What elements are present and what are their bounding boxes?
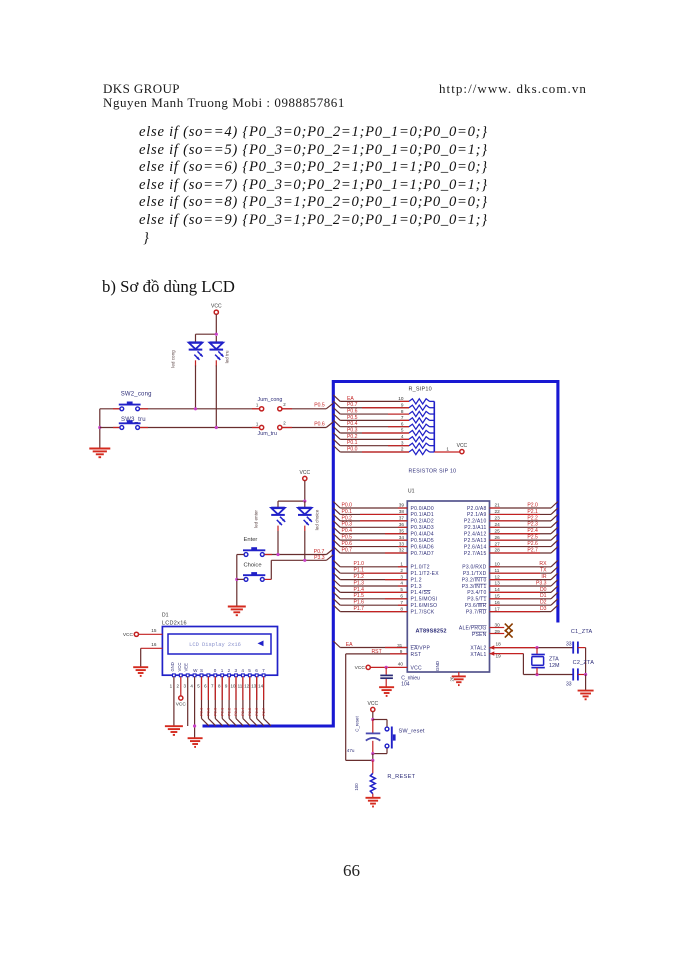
switch SW_reset [373,719,387,721]
svg-text:28: 28 [495,548,501,553]
svg-text:34: 34 [399,535,405,540]
svg-text:VCC: VCC [411,666,422,672]
svg-text:XTAL2: XTAL2 [470,646,486,652]
svg-text:P1.3: P1.3 [411,584,422,590]
svg-text:6: 6 [204,684,207,689]
svg-text:9: 9 [401,402,404,407]
svg-text:16: 16 [151,642,157,647]
svg-text:P1.0: P1.0 [354,561,365,567]
svg-text:D2: D2 [540,600,547,606]
wire net P2.7 from U1 pin 28 [490,552,552,554]
svg-text:P1.0/T2: P1.0/T2 [411,565,430,571]
svg-text:3: 3 [401,440,404,445]
svg-text:104: 104 [401,681,410,687]
svg-text:P0.0: P0.0 [342,502,353,508]
LED led_tru [215,336,217,342]
svg-text:2: 2 [401,447,404,452]
svg-text:C_reset: C_reset [355,716,360,732]
svg-text:12M: 12M [549,663,560,669]
svg-text:P0.5/AD5: P0.5/AD5 [411,538,434,544]
svg-text:SW2_cong: SW2_cong [121,391,152,397]
svg-text:1: 1 [221,668,224,673]
section heading [102,277,235,297]
node junction XTAL1/crystal [535,673,538,676]
svg-text:XTAL1: XTAL1 [470,652,486,658]
svg-text:P2.5: P2.5 [247,707,252,716]
svg-text:1: 1 [256,403,259,408]
node junction rail/SW3 [98,426,101,429]
svg-text:25: 25 [495,528,501,533]
svg-text:1: 1 [400,562,403,567]
capacitor C_reset 47u [372,720,374,733]
wire net P0.6 to R_SIP10 pin 8 [333,408,340,415]
svg-text:4: 4 [241,668,244,673]
svg-text:P3.5/T1: P3.5/T1 [467,597,486,603]
svg-text:22: 22 [495,509,501,514]
wire led_cong to SW2 row [195,366,197,409]
svg-text:P3.3: P3.3 [536,580,547,586]
svg-text:8: 8 [401,409,404,414]
wire to crystal ground [585,675,587,691]
code block [139,124,488,247]
svg-text:10: 10 [398,396,404,401]
node junction reset top [371,718,374,721]
svg-text:led choice: led choice [315,509,320,530]
wire XTAL1 U1 pin 19 [490,651,495,655]
svg-text:35: 35 [399,528,405,533]
wire VCC to middle LEDs [304,481,306,502]
svg-text:P1.5: P1.5 [354,593,365,599]
wire net P0.6 to U1 pin 33 [333,540,340,547]
svg-text:VCC: VCC [300,470,311,476]
svg-text:P0.6: P0.6 [342,541,353,547]
svg-text:6: 6 [401,421,404,426]
svg-text:P2.7: P2.7 [527,547,538,553]
svg-text:19: 19 [496,654,502,659]
svg-text:GND: GND [435,660,440,671]
svg-text:ALE/PROG: ALE/PROG [459,626,487,632]
svg-text:P2.2: P2.2 [226,707,231,716]
svg-text:RST: RST [411,652,422,658]
header line 2 [103,95,345,111]
svg-text:5: 5 [401,428,404,433]
svg-text:38: 38 [399,509,405,514]
wire U1 GND pin 20 to ground [458,672,460,676]
wire net P0.5 to R_SIP10 pin 7 [333,414,340,421]
svg-text:ZTA: ZTA [549,656,559,662]
svg-text:8: 8 [400,606,403,611]
svg-text:P0.4: P0.4 [342,528,353,534]
svg-text:U1: U1 [408,489,415,495]
svg-text:P0.4: P0.4 [347,421,358,427]
svg-text:P0.5: P0.5 [342,535,353,541]
svg-text:31: 31 [397,643,403,648]
node junction rail/Choice [235,578,238,581]
wire net IR from U1 pin 12 [490,579,552,581]
svg-text:P2.5: P2.5 [527,535,538,541]
svg-text:D1: D1 [162,613,169,619]
svg-text:P0.5: P0.5 [314,403,325,409]
svg-text:10: 10 [495,562,501,567]
svg-text:P2.7/A15: P2.7/A15 [464,551,487,557]
svg-text:14: 14 [495,587,501,592]
svg-text:P2.3: P2.3 [233,707,238,716]
wire LCD pin 16 to ground [141,647,163,649]
wire net P1.2 to U1 pin 3 [333,573,340,580]
svg-text:P0.6/AD6: P0.6/AD6 [411,544,434,550]
svg-text:P2.0: P2.0 [527,502,538,508]
svg-text:P2.1/A9: P2.1/A9 [467,512,487,518]
svg-text:2: 2 [283,421,286,426]
svg-text:C2_ZTA: C2_ZTA [573,660,595,666]
svg-text:9: 9 [400,649,403,654]
wire rail to SW2 [100,408,120,410]
svg-text:AT89S8252: AT89S8252 [416,629,447,635]
power VCC middle [303,476,307,480]
svg-text:R_SIP10: R_SIP10 [409,387,432,393]
svg-text:P0.3: P0.3 [347,427,358,433]
power VCC top [214,310,218,314]
svg-text:33: 33 [399,541,405,546]
ground Enter/Choice rail [228,606,246,608]
wire net D3 from U1 pin 17 [490,611,552,613]
svg-text:32: 32 [399,548,405,553]
wire net P0.1 to R_SIP10 pin 3 [333,439,340,446]
svg-text:P0.7/AD7: P0.7/AD7 [411,551,434,557]
svg-text:RESISTOR SIP 10: RESISTOR SIP 10 [409,469,457,475]
svg-text:P3.3: P3.3 [314,555,325,561]
LED led_cong [195,334,197,342]
svg-text:13: 13 [251,684,257,689]
svg-text:P2.7: P2.7 [261,707,266,716]
svg-text:Jum_tru: Jum_tru [258,431,277,437]
wire U1 pin 30 ALE/PROG (no connect) [490,627,505,629]
svg-text:P3.1: P3.1 [199,707,204,716]
node junction C_nhieu tap [385,666,388,669]
svg-text:P0.3/AD3: P0.3/AD3 [411,525,434,531]
svg-text:1: 1 [446,446,449,451]
svg-text:P2.6: P2.6 [527,541,538,547]
svg-text:VCC: VCC [211,304,222,310]
svg-text:P1.2: P1.2 [411,577,422,583]
wire net P1.1 to U1 pin 2 [333,567,340,574]
svg-text:VCC: VCC [177,663,182,672]
svg-text:P2.3/A11: P2.3/A11 [464,525,486,531]
svg-text:P1.2: P1.2 [354,574,365,580]
svg-text:7: 7 [401,415,404,420]
svg-text:1: 1 [256,421,259,426]
svg-text:5: 5 [197,684,200,689]
svg-text:D0: D0 [540,587,547,593]
wire VCC to LCD pin 15 [139,633,163,635]
svg-text:9: 9 [225,684,228,689]
power VCC at U1 pin 40 [366,665,370,669]
ground U1 pin 20 [452,675,466,677]
svg-text:RX: RX [539,561,547,567]
wire LCD pin 13 to bus [256,677,258,719]
wire net RST: U1 pin 9 to reset circuit [346,653,408,655]
svg-text:P0.6: P0.6 [347,408,358,414]
svg-text:18: 18 [496,641,502,646]
svg-text:14: 14 [258,684,264,689]
wire net P0.4 to U1 pin 35 [333,527,340,534]
header left: DKS GROUP [103,81,180,97]
wire net P0.7 to U1 pin 32 [333,547,340,554]
wire led_tru to SW3 row [215,366,217,428]
resistor R_RESET 100 [372,760,374,773]
svg-text:LCD2x16: LCD2x16 [162,620,187,626]
wire LCD pin 10 to bus [235,677,237,719]
LED led_choice [304,501,306,508]
wire R_SIP10 pin 1 to VCC [434,451,459,453]
wire LCD pin 2 to VCC [180,677,182,696]
wire net P1.7 to U1 pin 8 [333,605,340,612]
svg-text:3: 3 [400,574,403,579]
wire Choice to bus net P3.3 [265,578,272,580]
svg-text:P0.7: P0.7 [347,402,358,408]
svg-text:P3.3/INT1: P3.3/INT1 [462,584,487,590]
svg-text:SW3_tru: SW3_tru [121,417,146,423]
svg-text:P3.1/TXD: P3.1/TXD [463,571,487,577]
wire net P0.0 to R_SIP10 pin 2 [333,446,340,453]
svg-text:P3.0/RXD: P3.0/RXD [462,565,486,571]
svg-text:7: 7 [400,600,403,605]
svg-text:led tru: led tru [225,350,230,363]
wire net P3.3 from U1 pin 13 [490,585,552,587]
svg-text:P2.2/A10: P2.2/A10 [464,519,487,525]
node junction reset bottom [371,752,374,755]
node junction led_cong row1 [194,407,197,410]
wire net P1.5 to U1 pin 6 [333,592,340,599]
svg-text:2: 2 [283,402,286,407]
wire net P2.6 from U1 pin 27 [490,546,552,548]
svg-text:P0.0: P0.0 [347,446,358,452]
wire net EA to R_SIP10 pin 10 [333,395,340,402]
wire XTAL2 U1 pin 18 [490,645,495,649]
svg-text:29: 29 [495,629,501,634]
svg-text:P2.1: P2.1 [527,509,538,515]
svg-text:4: 4 [190,684,193,689]
svg-text:P0.1/AD1: P0.1/AD1 [411,512,434,518]
svg-text:P0.4/AD4: P0.4/AD4 [411,532,434,538]
svg-text:47u: 47u [347,748,355,753]
wire SW3 to Jum_tru [140,427,259,429]
svg-text:11: 11 [495,568,500,573]
svg-text:Jum_cong: Jum_cong [258,397,283,403]
svg-text:P1.5/MOSI: P1.5/MOSI [411,597,438,603]
svg-text:P0.1: P0.1 [342,509,353,515]
svg-text:6: 6 [255,668,258,673]
svg-text:3: 3 [183,684,186,689]
node junction LCD contrast [193,724,196,727]
svg-text:P0.2: P0.2 [347,434,358,440]
svg-text:40: 40 [398,661,404,666]
svg-text:2: 2 [400,568,403,573]
svg-text:P3.4/T0: P3.4/T0 [467,590,486,596]
wire LCD pin 8 to bus [221,677,223,719]
svg-text:2: 2 [228,668,231,673]
ground R_RESET [366,797,381,799]
wire LCD pin 11 to bus [242,677,244,719]
D1 LCD pin name row [173,674,176,677]
svg-text:21: 21 [495,503,501,508]
svg-text:13: 13 [495,581,501,586]
svg-text:30: 30 [495,623,501,628]
wire net TX from U1 pin 11 [490,572,552,574]
wire net EA to U1 pin 31 [333,641,340,648]
svg-text:P1.1/T2-EX: P1.1/T2-EX [411,571,440,577]
wire net P1.4 to U1 pin 5 [333,586,340,593]
svg-text:17: 17 [495,606,501,611]
wire net P2.5 from U1 pin 26 [490,539,552,541]
wire rail to SW3 [100,427,120,429]
svg-text:8: 8 [218,684,221,689]
wire net P2.2 from U1 pin 23 [490,520,552,522]
node junction led_enter/P0.7 [276,553,279,556]
svg-text:S: S [200,668,203,673]
node junction XTAL2/crystal [535,646,538,649]
page number [343,861,360,881]
svg-text:P2.6/A14: P2.6/A14 [464,544,487,550]
svg-text:P2.1: P2.1 [219,707,224,716]
svg-text:P1.3: P1.3 [354,580,365,586]
wire net P2.0 from U1 pin 21 [490,507,552,509]
svg-text:1: 1 [170,684,173,689]
svg-text:5: 5 [400,587,403,592]
wire net P2.1 from U1 pin 22 [490,513,552,515]
svg-text:15: 15 [495,594,501,599]
wire net RX from U1 pin 10 [490,566,552,568]
svg-text:6: 6 [400,594,403,599]
node junction led_choice/P3.3 [303,559,306,562]
svg-text:P2.5/A13: P2.5/A13 [464,538,487,544]
svg-text:R_RESET: R_RESET [387,774,415,780]
svg-text:16: 16 [495,600,501,605]
capacitor C_nhieu 104 [385,667,387,674]
svg-text:P2.3: P2.3 [527,522,538,528]
node junction C1/C2/ground [584,673,587,676]
svg-text:P3.6/WR: P3.6/WR [465,603,487,609]
svg-text:P2.2: P2.2 [527,515,538,521]
wire left rail to ground [99,409,101,448]
node junction led_tru row2 [215,426,218,429]
wire LCD pin 9 to bus [228,677,230,719]
ground LCD pin 1 [165,725,183,727]
ground LCD contrast [188,737,203,739]
ground crystal [578,690,594,692]
wire net P1.3 to U1 pin 4 [333,580,340,587]
wire net D0 from U1 pin 14 [490,591,552,593]
wire net P0.3 to R_SIP10 pin 5 [333,427,340,434]
wire LCD pin 6 to bus [207,677,209,719]
svg-text:100: 100 [354,783,359,791]
svg-text:SW_reset: SW_reset [399,728,425,734]
svg-text:P0.7: P0.7 [342,547,353,553]
svg-text:23: 23 [495,516,501,521]
svg-text:VCC: VCC [355,665,366,671]
svg-text:PSEN: PSEN [472,632,487,638]
wire LCD pin 12 to bus [249,677,251,719]
ground LCD pin 16 [133,666,148,668]
svg-text:12: 12 [495,574,501,579]
svg-text:33: 33 [566,682,572,688]
wire net D1 from U1 pin 15 [490,598,552,600]
wire net P0.4 to R_SIP10 pin 6 [333,420,340,427]
wire LCD pin 3 [187,677,189,726]
power VCC at R_SIP10 [460,450,464,454]
svg-text:P2.4/A12: P2.4/A12 [464,532,487,538]
node junction VCC/LEDs [215,333,218,336]
svg-text:VCC: VCC [457,443,468,449]
svg-text:P0.3: P0.3 [342,522,353,528]
svg-text:37: 37 [399,516,405,521]
svg-text:24: 24 [495,522,501,527]
wire net P0.2 to R_SIP10 pin 4 [333,433,340,440]
node junction mid VCC [303,500,306,503]
power VCC at LCD pin 2 [179,696,183,700]
power VCC reset [371,707,375,711]
wire net P1.0 to U1 pin 1 [333,560,340,567]
wire led_choice to P3.3 row [304,531,306,560]
svg-text:EA/VPP: EA/VPP [411,646,431,652]
wire net D2 from U1 pin 16 [490,604,552,606]
svg-text:P1.6/MISO: P1.6/MISO [411,603,438,609]
wire net P2.4 from U1 pin 25 [490,533,552,535]
svg-text:VEE: VEE [184,663,189,672]
svg-text:Choice: Choice [244,563,262,569]
wire LCD pin 5 to bus [201,677,203,719]
svg-text:P0.6: P0.6 [314,421,325,427]
svg-text:P2.0/A8: P2.0/A8 [467,506,487,512]
svg-text:EA: EA [347,396,354,402]
svg-text:P1.1: P1.1 [354,568,365,574]
svg-text:2: 2 [177,684,180,689]
svg-text:W: W [193,668,198,673]
svg-text:P0.2/AD2: P0.2/AD2 [411,519,434,525]
power VCC at LCD pin 15 [134,632,138,636]
svg-text:TX: TX [540,568,547,574]
svg-text:P2.6: P2.6 [254,707,259,716]
svg-text:P3.0: P3.0 [206,707,211,716]
wire VCC to reset junction [372,712,374,720]
ground left rail [89,448,110,450]
ground C_nhieu [379,686,394,688]
svg-text:4: 4 [400,581,403,586]
wire Jum_tru to bus net P0.6 [282,427,326,429]
wire U1 pin 29 PSEN (no connect) [490,633,505,635]
wire LCD pin 7 to bus [214,677,216,719]
wire net P1.6 to U1 pin 7 [333,599,340,606]
wire net P2.3 from U1 pin 24 [490,526,552,528]
svg-text:P0.1: P0.1 [347,440,358,446]
wire net P0.7 to R_SIP10 pin 9 [333,401,340,408]
svg-text:P2.4: P2.4 [240,707,245,716]
wire Enter left to rail [237,554,244,556]
wire net P0.3 to U1 pin 36 [333,521,340,528]
svg-text:36: 36 [399,522,405,527]
header right: url [439,81,587,97]
crystal ZTA 12M [536,648,538,655]
svg-text:33: 33 [566,642,572,648]
wire to RST tee [372,754,374,761]
svg-text:0: 0 [214,668,217,673]
svg-text:P0.5: P0.5 [347,415,358,421]
wire net P0.5 to U1 pin 34 [333,534,340,541]
wire VCC to LED junction [215,314,217,334]
svg-text:7: 7 [211,684,214,689]
wire net P0.2 to U1 pin 37 [333,514,340,521]
node junction RST/R_RESET [371,759,374,762]
